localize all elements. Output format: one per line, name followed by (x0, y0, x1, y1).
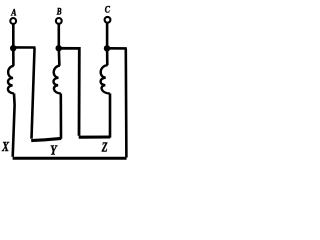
inductor winding A (3 loops) (8, 66, 14, 94)
wire: junction C down to winding (106, 48, 109, 65)
wire: branch from junction A right and down (13, 47, 34, 138)
wire: branch from junction B right and down (59, 48, 80, 136)
wire: B terminal to junction (57, 24, 60, 48)
terminal C (circle) (105, 17, 111, 23)
wire: C terminal to junction (106, 23, 109, 48)
junction node C (104, 45, 110, 51)
svg-text:B: B (56, 7, 62, 17)
wire: bottom bus X-end to C branch (bottom line) (13, 157, 127, 160)
svg-text:C: C (105, 4, 111, 15)
wire: up to winding B bottom (Y end) (59, 94, 62, 139)
wire: A terminal to junction (12, 24, 15, 48)
terminal B (circle) (56, 18, 62, 24)
wire: winding A bottom (X end) down to bottom-left corner (13, 93, 15, 156)
terminal A (circle) (10, 18, 16, 24)
svg-text:Y: Y (50, 143, 58, 158)
junction node A (10, 45, 16, 51)
inductor winding C (3 loops) (101, 65, 110, 94)
wire: up to winding C bottom (Z end) (109, 94, 112, 138)
junction node B (56, 45, 62, 51)
wire: U-link bottom A-branch to winding B bottom (31, 138, 61, 140)
wire: junction B down to winding (57, 48, 60, 66)
inductor winding B (3 loops) (53, 66, 60, 94)
svg-text:X: X (1, 140, 9, 155)
svg-text:Z: Z (101, 141, 108, 156)
wire: junction A down to winding (12, 48, 15, 66)
wire: U-link bottom B-branch to winding C bottom (79, 135, 111, 138)
wire: branch from junction C right and down to bottom bus (107, 48, 126, 157)
